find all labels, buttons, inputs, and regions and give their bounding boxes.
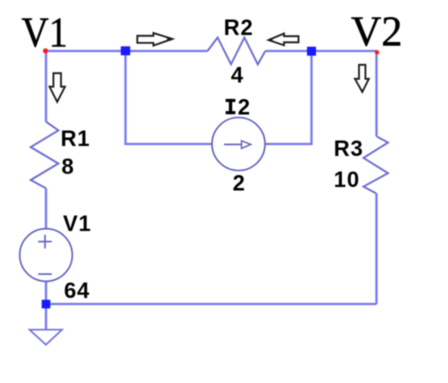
I2 arrow (224, 143, 242, 145)
wire: R1 bottom to source V1 top (45, 188, 47, 229)
junction bottom square (42, 300, 51, 309)
junction A square (121, 46, 130, 55)
arrow down (below V1 node) (50, 73, 66, 102)
wire top left: V1 node to junction A and R2 left lead (46, 50, 208, 52)
wire top right: R2 right lead to V2 corner (265, 50, 377, 52)
svg-text:4: 4 (231, 62, 244, 87)
arrow down (below V2 node) (355, 65, 369, 92)
svg-text:R1: R1 (61, 126, 91, 151)
svg-text:2: 2 (238, 94, 251, 119)
resistor R2 zigzag (208, 38, 266, 65)
minus sign (38, 273, 52, 275)
arrow left (current direction at R2 right) (268, 34, 299, 46)
voltage source V1 circle (20, 229, 73, 282)
wire: I2 right lead up to junction B (265, 51, 312, 144)
arrow right (current direction at R2 left) (137, 33, 172, 46)
resistor R3 zigzag (364, 136, 389, 193)
wire: ground stem (45, 304, 47, 330)
svg-text:2: 2 (233, 170, 246, 195)
svg-text:R2: R2 (224, 15, 254, 40)
svg-text:64: 64 (64, 278, 90, 303)
wire bottom horizontal (46, 303, 377, 305)
label I2 (I drawn with crossbars) (226, 94, 251, 119)
svg-text:8: 8 (62, 154, 75, 179)
current source I2 circle (212, 118, 265, 171)
red node dot V1 (43, 48, 48, 53)
svg-text:V2: V2 (351, 10, 402, 56)
svg-text:V1: V1 (22, 8, 68, 55)
wire left vertical: V1 node down to R1 (45, 51, 47, 122)
wire: junction A down to I2 left lead (126, 51, 213, 144)
resistor R1 zigzag (31, 122, 59, 189)
svg-text:10: 10 (334, 167, 360, 192)
wire: R3 bottom to bottom wire (375, 194, 377, 304)
ground (30, 330, 62, 345)
svg-text:R3: R3 (334, 136, 364, 161)
wire right vertical: V2 corner down to R3 (375, 51, 377, 136)
wire: source V1 bottom to bottom node (45, 282, 47, 305)
junction B square (307, 47, 316, 56)
svg-text:V1: V1 (63, 211, 92, 236)
plus sign (38, 241, 52, 243)
red node dot V2 (375, 50, 379, 54)
